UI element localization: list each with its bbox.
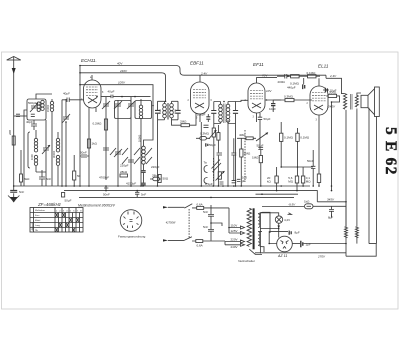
fuse upper [192, 206, 229, 209]
svg-text:0,2MΩ: 0,2MΩ [93, 122, 103, 126]
svg-text:40μF: 40μF [63, 92, 70, 96]
svg-text:345V: 345V [327, 198, 335, 202]
field coil choke 1 [345, 227, 348, 256]
svg-text:5 E 62: 5 E 62 [382, 127, 399, 176]
gang link dashed [213, 158, 215, 181]
bottom return wire [346, 244, 376, 257]
gang link dashed 2 [244, 130, 246, 182]
cap 40uF grid left of tube [62, 98, 84, 103]
svg-text:1kΩ: 1kΩ [92, 142, 98, 146]
svg-text:200Ω: 200Ω [278, 80, 286, 84]
EL11 bias feed [331, 102, 333, 191]
cap 100pF EBF11 [206, 114, 210, 122]
mains plug stubs [163, 206, 184, 241]
screen resistors top right [285, 74, 287, 79]
field coil wire [345, 110, 347, 227]
heater tap arrow [288, 213, 292, 215]
svg-text:220pF: 220pF [151, 165, 160, 169]
svg-text:0,1MΩ: 0,1MΩ [284, 135, 294, 139]
svg-text:Netzschalter: Netzschalter [238, 259, 255, 263]
mains switch S1 [184, 204, 192, 208]
elco 1uF at output [301, 241, 346, 248]
svg-text:0,6A: 0,6A [197, 202, 203, 206]
table crosses [56, 213, 80, 232]
svg-text:0,1MΩ: 0,1MΩ [307, 71, 317, 75]
band coil set lower-left [28, 130, 38, 172]
elco bar [217, 153, 223, 155]
oscillator coil assembly [106, 97, 143, 186]
svg-text:2000: 2000 [175, 108, 177, 114]
svg-text:2,4V: 2,4V [329, 74, 337, 78]
tube pin numbers [81, 77, 318, 122]
coil 10000 feedback [141, 106, 153, 187]
antenna coil windings [37, 100, 44, 111]
IF transformer 2 [211, 102, 238, 124]
svg-text:0,3MΩ: 0,3MΩ [284, 95, 294, 99]
svg-text:Abgleich: Abgleich [31, 221, 34, 230]
power transformer T1 primary [247, 208, 251, 246]
resistor 0,2M [104, 119, 107, 130]
svg-text:220V: 220V [231, 238, 238, 242]
osc coil shield box 2 [135, 101, 152, 119]
svg-text:5nF: 5nF [46, 177, 51, 181]
svg-text:50Ω: 50Ω [163, 177, 169, 181]
cap 50uF tone [258, 147, 263, 149]
cap on x233.5 [231, 138, 236, 181]
svg-text:ZF=468kHz: ZF=468kHz [37, 202, 62, 207]
svg-text:200Ω: 200Ω [329, 91, 337, 95]
resistor 2M [181, 124, 189, 127]
decoupling caps top right [303, 78, 305, 89]
svg-text:8μF: 8μF [328, 216, 333, 220]
padder caps [103, 148, 134, 162]
switch gang link [188, 209, 190, 239]
grid cap 100pF to ECH11 [62, 99, 70, 123]
osc section vertical wires [62, 100, 74, 186]
osc trimmers [102, 101, 135, 109]
wire EL11 anode to output transformer [326, 75, 345, 93]
cathode cap EF11 [258, 117, 262, 119]
resistor 50k osc [73, 171, 76, 180]
vertical wires tuner [24, 94, 52, 186]
mains switch on transformer [249, 249, 262, 254]
svg-text:4700pF: 4700pF [99, 176, 109, 180]
svg-text:MΩ: MΩ [306, 180, 311, 184]
svg-text:40μF: 40μF [108, 90, 115, 94]
svg-text:4150pF: 4150pF [126, 182, 136, 186]
antenna [7, 57, 21, 191]
svg-text:MΩ: MΩ [288, 180, 293, 184]
svg-text:2000: 2000 [160, 108, 162, 114]
resistor 0,1M a [280, 133, 283, 141]
svg-text:40pF: 40pF [26, 120, 33, 124]
svg-text:5nF: 5nF [203, 225, 208, 229]
svg-text:5kΩ: 5kΩ [24, 177, 30, 181]
svg-text:10000: 10000 [138, 134, 142, 142]
mains cap junction to ground [211, 223, 222, 226]
resistor 0,3M [285, 99, 294, 102]
svg-text:5nF: 5nF [141, 193, 146, 197]
power transformer secondary [258, 214, 260, 245]
svg-text:4,2V: 4,2V [284, 218, 290, 222]
svg-text:50μF: 50μF [65, 198, 72, 202]
tone pot arrow [256, 133, 268, 142]
resistor 5k [20, 174, 23, 182]
svg-text:10μF: 10μF [269, 107, 276, 111]
bottom-right vertical feeds [332, 202, 347, 227]
resistor 0,1M c [301, 176, 304, 183]
screen rail 105V left drop [79, 66, 81, 187]
mains filter caps 5nF 5nF [208, 205, 214, 241]
page frame [2, 52, 399, 309]
elco 50uF [206, 143, 208, 146]
bottom row caps/resistors [237, 179, 241, 181]
svg-text:5nF: 5nF [19, 190, 24, 194]
chassis bus line 1 [14, 185, 310, 187]
resistor 50k [275, 176, 278, 183]
svg-text:Wellenber.: Wellenber. [35, 209, 46, 212]
HV lead to AZ11 [258, 212, 270, 252]
resistor 1k cathode [87, 139, 90, 148]
svg-text:0,1μF: 0,1μF [205, 182, 213, 186]
svg-text:50: 50 [77, 174, 81, 178]
diode load pot 0,3M [196, 130, 216, 140]
resistor 0,1M b [296, 133, 299, 141]
resistor x233.8 bottom [232, 181, 237, 183]
270V line [255, 252, 346, 254]
cap 50nF on bus [104, 186, 108, 191]
TA jack upper [204, 166, 208, 173]
svg-text:1000: 1000 [30, 154, 34, 160]
svg-text:50nF: 50nF [103, 193, 110, 197]
cap 50nF osc [80, 155, 89, 157]
ground (antenna earth) [8, 193, 19, 202]
svg-text:440μF: 440μF [287, 86, 296, 90]
svg-text:EL11: EL11 [318, 64, 329, 69]
svg-text:8μF: 8μF [295, 231, 300, 235]
svg-text:1μF: 1μF [306, 243, 311, 247]
svg-text:Meßinstrument 3600Ω/V: Meßinstrument 3600Ω/V [78, 204, 116, 208]
vertical x228 [227, 120, 229, 186]
tuning gang 1 [42, 140, 50, 186]
resistor 4M [237, 137, 256, 140]
svg-text:50μF: 50μF [209, 143, 216, 147]
resistor 200ohm antenna shunt [12, 136, 15, 145]
svg-text:1MΩ: 1MΩ [252, 156, 259, 160]
EF11 tube U3 [248, 77, 265, 122]
switch contacts osc [110, 148, 152, 164]
field coil choke 2 [355, 227, 358, 244]
svg-text:EF11: EF11 [253, 62, 264, 67]
cap 40uF at ECH11 [101, 95, 151, 99]
cap 0,1uF [220, 182, 224, 184]
svg-text:50nF: 50nF [80, 151, 87, 155]
70V rail [257, 76, 278, 78]
elco under cathode [204, 125, 209, 127]
TA jack lower [204, 178, 208, 184]
chassis bus line 4 [256, 193, 299, 195]
svg-text:42750W: 42750W [166, 220, 176, 224]
svg-text:Ta: Ta [204, 161, 208, 165]
svg-text:50μF: 50μF [264, 117, 271, 121]
trimmer cap 500pF [30, 103, 38, 112]
cap 8uF on AZ11 [289, 231, 291, 235]
svg-text:240V: 240V [231, 245, 238, 249]
EL11 cathode down [317, 174, 320, 183]
svg-text:AZ 11: AZ 11 [277, 254, 287, 258]
resistor 0,1M below EBF [212, 128, 215, 137]
svg-text:1kΩ: 1kΩ [304, 200, 310, 204]
primary taps arrows [225, 208, 245, 246]
resistor 5,6k [295, 176, 298, 183]
wave switch arms [212, 160, 222, 173]
resistor 2M vert [240, 149, 243, 157]
cap 50uF at EL11 [323, 88, 329, 92]
antenna trimmer blobs [16, 114, 35, 116]
cap 5nF between buses [135, 191, 139, 198]
dial lamp [260, 213, 282, 238]
speaker LS [361, 87, 379, 117]
speaker leads down [357, 108, 377, 244]
EL11 tube U4 [310, 78, 328, 125]
antenna coil assembly box [27, 99, 46, 120]
RF coil 2 with core [56, 132, 59, 186]
resistor 28k [120, 174, 128, 177]
resistor 1M vert [259, 156, 262, 163]
svg-text:0,1MΩ: 0,1MΩ [300, 135, 310, 139]
svg-text:Mittel: Mittel [35, 219, 41, 222]
svg-text:2MΩ: 2MΩ [180, 120, 187, 124]
table tiny text [31, 209, 83, 232]
svg-text:Fassungsanordnung: Fassungsanordnung [118, 235, 146, 239]
chassis bus line 2 [64, 191, 317, 202]
svg-text:220pF: 220pF [120, 164, 129, 168]
output transformer secondary [355, 93, 361, 109]
antenna coupling capacitor 5nF [10, 190, 17, 192]
-9,5V line with 1k resistor [262, 206, 304, 208]
svg-text:15000: 15000 [46, 104, 50, 112]
svg-text:500pF: 500pF [28, 101, 37, 105]
svg-text:0,3MΩ: 0,3MΩ [200, 132, 210, 136]
tube socket diagram [120, 210, 142, 232]
ECH11 tube U1 [84, 75, 102, 186]
wire antenna to coil box [14, 115, 27, 117]
alignment table [30, 208, 83, 233]
svg-text:2MΩ: 2MΩ [244, 152, 251, 156]
svg-text:105V: 105V [118, 81, 126, 85]
cap 8uF bias [329, 206, 334, 217]
volume pot [216, 171, 225, 181]
resistor below EBF [217, 133, 220, 141]
wire EBF11 cathode down [200, 122, 202, 186]
svg-text:EBF11: EBF11 [190, 61, 204, 66]
svg-text:Lang: Lang [35, 225, 41, 227]
IF transformer 1 [155, 101, 181, 121]
coupling cap 40pF [31, 120, 37, 130]
svg-text:125V: 125V [231, 229, 238, 233]
svg-text:-9,5V: -9,5V [288, 203, 296, 207]
wire x237 [236, 100, 249, 186]
cap 5nF mid [39, 170, 45, 186]
svg-text:270V: 270V [317, 255, 326, 259]
cap 50uF under bus1 [62, 193, 65, 198]
chassis bus line 3 [79, 196, 294, 198]
resistor 1k oval [305, 204, 347, 209]
osc coil shield box 1 [115, 101, 132, 119]
svg-text:pF: pF [242, 179, 246, 183]
svg-text:30000: 30000 [52, 150, 56, 158]
rail 240V [80, 73, 166, 102]
svg-text:240V: 240V [119, 69, 128, 73]
svg-text:ECH11.: ECH11. [81, 58, 97, 63]
svg-text:2,4V: 2,4V [200, 72, 208, 76]
rail 105V [80, 85, 153, 106]
mains switch S2 [184, 237, 192, 241]
svg-text:200: 200 [8, 130, 12, 136]
svg-text:100pF: 100pF [197, 113, 206, 117]
rail 40V [80, 66, 326, 76]
fuse lower [192, 240, 225, 243]
cap 10nF [271, 100, 281, 112]
AZ11 loop [260, 222, 278, 253]
svg-text:0,6A: 0,6A [197, 243, 203, 247]
svg-text:Kurz: Kurz [35, 214, 40, 217]
rectifier AZ11 [269, 232, 300, 252]
svg-text:28kΩ: 28kΩ [120, 170, 128, 174]
RF coil 1500 [50, 99, 53, 186]
output transformer T2 primary [343, 94, 352, 110]
svg-text:110V: 110V [231, 224, 238, 228]
EBF11 tube U2 [191, 75, 210, 122]
resistor 28k oval [150, 177, 162, 181]
transformer core [253, 208, 255, 249]
svg-text:5nF: 5nF [203, 210, 208, 214]
